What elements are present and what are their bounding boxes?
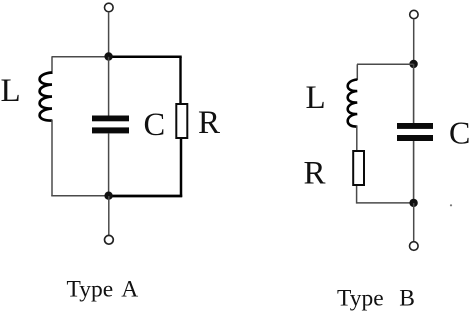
- terminal top B: [410, 10, 418, 18]
- capacitor C (Type A) bottom plate: [92, 127, 129, 133]
- wire top horizontal B: [357, 63, 414, 65]
- node A2 junction dot: [104, 192, 112, 200]
- stray speck: [450, 204, 452, 206]
- wire between L and R (Type B): [356, 126, 358, 151]
- wire middle branch upper: [108, 57, 110, 116]
- wire below R (Type B): [356, 186, 358, 204]
- wire right branch lower (thick): [180, 139, 183, 197]
- svg-text:R: R: [198, 105, 220, 141]
- wire left branch upper: [51, 57, 53, 74]
- svg-text:Type: Type: [337, 286, 384, 312]
- inductor L (Type B): [348, 80, 358, 127]
- wire bottom left horizontal: [51, 195, 108, 197]
- wire bottom horizontal B: [357, 202, 414, 204]
- wire top left horizontal: [52, 56, 109, 58]
- capacitor C (Type B) top plate: [397, 123, 433, 129]
- capacitor C (Type B) bottom plate: [397, 135, 433, 141]
- wire left branch upper B: [356, 64, 358, 80]
- svg-text:B: B: [399, 286, 415, 312]
- resistor R (Type B): [353, 151, 364, 185]
- svg-text:R: R: [304, 156, 326, 192]
- svg-text:L: L: [306, 80, 326, 116]
- inductor L (Type A): [40, 73, 52, 121]
- wire left branch lower: [51, 120, 53, 197]
- wire right branch upper B: [413, 64, 415, 123]
- terminal bottom B: [410, 242, 419, 251]
- svg-text:C: C: [144, 107, 166, 143]
- svg-text:Type: Type: [67, 277, 114, 303]
- wire middle branch lower: [108, 133, 110, 196]
- resistor R (Type A): [176, 104, 187, 138]
- wire right branch lower B: [413, 141, 415, 203]
- wire node A2 to bottom terminal: [108, 196, 110, 235]
- svg-text:L: L: [1, 73, 21, 109]
- wire top terminal to node B1: [413, 19, 415, 64]
- wire bottom right horizontal (thick): [109, 195, 183, 198]
- node B2 junction dot: [409, 199, 417, 207]
- wire right branch upper (thick): [179, 57, 181, 104]
- node B1 junction dot: [409, 60, 417, 68]
- terminal bottom A: [105, 235, 114, 244]
- wire top terminal to node A1: [108, 12, 110, 57]
- svg-text:C: C: [449, 115, 470, 151]
- svg-text:A: A: [121, 277, 138, 303]
- terminal top A: [105, 3, 114, 12]
- wire top right horizontal (thick): [109, 56, 182, 59]
- wire node B2 to bottom terminal: [413, 203, 415, 242]
- node A1 junction dot: [104, 52, 112, 60]
- capacitor C (Type A) top plate: [92, 116, 129, 122]
